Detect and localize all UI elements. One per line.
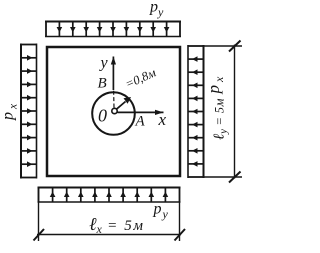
svg-text:0: 0 — [98, 106, 107, 126]
svg-text:px: px — [204, 74, 226, 95]
svg-text:B: B — [98, 76, 107, 92]
svg-text:y: y — [99, 55, 109, 72]
svg-text:ℓx = 5м: ℓx = 5м — [89, 214, 145, 236]
svg-text:py: py — [153, 201, 169, 222]
svg-text:x: x — [158, 110, 167, 129]
svg-text:ℓy = 5м: ℓy = 5м — [212, 98, 230, 140]
svg-text:py: py — [149, 0, 164, 19]
svg-text:=0,8м: =0,8м — [123, 65, 158, 91]
svg-text:A: A — [135, 114, 146, 130]
svg-text:px: px — [0, 101, 20, 121]
